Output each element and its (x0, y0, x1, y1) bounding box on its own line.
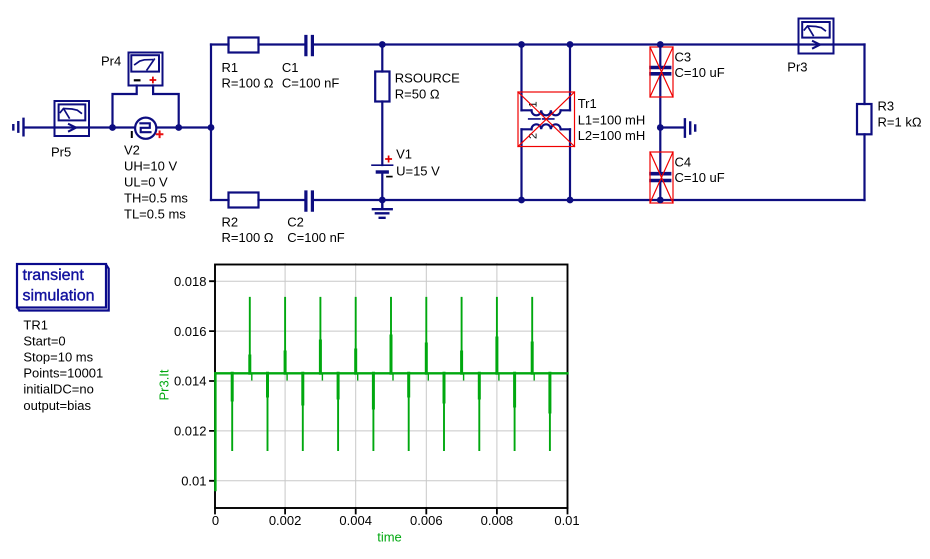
svg-text:0.018: 0.018 (174, 274, 207, 289)
svg-text:0.008: 0.008 (481, 513, 514, 528)
Tr1 core dashed line (529, 118, 554, 120)
node dot top Tr1 right (567, 41, 574, 48)
ground left (13, 119, 23, 136)
resistor R1 (229, 38, 259, 53)
svg-text:UL=0 V: UL=0 V (124, 175, 168, 190)
capacitor C1 (306, 37, 313, 55)
svg-text:0.016: 0.016 (174, 324, 207, 339)
svg-text:C3: C3 (675, 50, 692, 65)
wire input line (24, 126, 211, 128)
svg-text:Points=10001: Points=10001 (23, 366, 103, 381)
wire top rail (211, 43, 865, 45)
svg-text:0.014: 0.014 (174, 374, 207, 389)
svg-text:initialDC=no: initialDC=no (23, 382, 93, 397)
wire transformer left column (520, 45, 522, 201)
svg-text:0.002: 0.002 (269, 513, 302, 528)
curve start transient (214, 373, 216, 490)
node dot top C3 (657, 41, 664, 48)
svg-text:0.01: 0.01 (181, 474, 206, 489)
curve baseline (215, 372, 567, 374)
svg-text:C1: C1 (282, 60, 299, 75)
svg-text:0.006: 0.006 (410, 513, 443, 528)
wire transformer right column (569, 45, 571, 201)
node dot top Tr1 left (518, 41, 525, 48)
capacitor C2 (306, 192, 313, 210)
capacitor C4 (651, 174, 670, 181)
Pr4 minus mark (135, 79, 140, 81)
simulation box transient (17, 264, 109, 311)
Tr1 deactivation box (518, 92, 575, 147)
probe Pr3 (799, 19, 834, 54)
svg-text:U=15 V: U=15 V (396, 163, 440, 178)
node dot input split (208, 124, 215, 131)
curve up spikes (250, 298, 534, 380)
svg-text:R2: R2 (222, 215, 239, 230)
C3 deactivation box (650, 47, 673, 97)
svg-text:L1=100 mH: L1=100 mH (578, 112, 646, 127)
node dot bottom Tr1 right (567, 197, 574, 204)
V2 plus mark (157, 132, 163, 138)
svg-text:Pr3.It: Pr3.It (157, 369, 172, 400)
node dot V2 right (175, 124, 182, 131)
node dot bottom V1 (379, 197, 386, 204)
svg-text:Start=0: Start=0 (23, 333, 65, 348)
plot x ticks (215, 508, 568, 514)
wire RSOURCE/V1 branch (381, 45, 383, 201)
svg-text:R=50 Ω: R=50 Ω (395, 86, 440, 101)
wire left branch vertical (210, 45, 212, 201)
V1 plus mark (386, 156, 391, 161)
transformer Tr1 (522, 110, 571, 129)
wire Pr4 leads (113, 86, 179, 128)
svg-text:R3: R3 (878, 99, 895, 114)
svg-text:V2: V2 (124, 143, 140, 158)
C4 deactivation box (650, 152, 673, 203)
svg-text:TR1: TR1 (23, 317, 48, 332)
svg-text:0: 0 (212, 513, 219, 528)
capacitor C3 (651, 68, 670, 74)
svg-text:Tr1: Tr1 (578, 96, 597, 111)
wire bottom rail (211, 199, 865, 201)
V1 minus mark (387, 176, 392, 178)
resistor R3 (857, 104, 872, 134)
svg-text:R1: R1 (222, 60, 239, 75)
svg-text:C=10 uF: C=10 uF (675, 65, 725, 80)
svg-text:C4: C4 (675, 155, 692, 170)
svg-text:time: time (377, 530, 402, 545)
resistor RSOURCE (375, 72, 389, 102)
plot y ticks (210, 281, 215, 481)
svg-text:C=10 uF: C=10 uF (675, 170, 725, 185)
source V2 rectangle voltage (135, 118, 156, 139)
wire mid ground stem (660, 126, 683, 128)
ground under V1 (373, 200, 392, 218)
probe Pr4 voltmeter U1 (129, 53, 163, 86)
svg-text:transient: transient (23, 267, 85, 284)
svg-text:R=1 kΩ: R=1 kΩ (878, 115, 922, 130)
svg-text:0.012: 0.012 (174, 424, 207, 439)
svg-text:C2: C2 (287, 215, 304, 230)
svg-text:V1: V1 (396, 147, 412, 162)
svg-text:output=bias: output=bias (23, 398, 91, 413)
svg-text:L2=100 mH: L2=100 mH (578, 128, 646, 143)
source V1 battery (372, 164, 393, 166)
svg-text:Pr4: Pr4 (101, 54, 121, 69)
svg-text:TH=0.5 ms: TH=0.5 ms (124, 191, 188, 206)
node dot bottom C4 (657, 197, 664, 204)
svg-text:UH=10 V: UH=10 V (124, 159, 177, 174)
ground right mid (685, 119, 695, 136)
probe Pr5 (55, 101, 90, 136)
Pr4 plus mark (150, 78, 155, 83)
resistor R2 (229, 193, 259, 208)
svg-text:Pr5: Pr5 (51, 145, 71, 160)
node dot top RSOURCE (379, 41, 386, 48)
svg-text:TL=0.5 ms: TL=0.5 ms (124, 207, 186, 222)
svg-text:C=100 nF: C=100 nF (282, 76, 340, 91)
svg-text:R=100 Ω: R=100 Ω (222, 230, 274, 245)
svg-text:C=100 nF: C=100 nF (287, 230, 345, 245)
plot gridlines (215, 264, 568, 509)
node dot bottom Tr1 left (518, 197, 525, 204)
wire C3 C4 column (659, 45, 661, 201)
svg-text:R=100 Ω: R=100 Ω (222, 76, 274, 91)
svg-text:0.01: 0.01 (554, 513, 579, 528)
node dot V2 left (109, 124, 116, 131)
wire right vertical (863, 45, 865, 201)
svg-text:RSOURCE: RSOURCE (395, 71, 460, 86)
svg-text:Pr3: Pr3 (787, 60, 807, 75)
svg-text:Stop=10 ms: Stop=10 ms (23, 350, 93, 365)
plot frame (215, 265, 568, 509)
svg-text:0.004: 0.004 (339, 513, 372, 528)
V2 minus mark (131, 132, 133, 137)
svg-text:simulation: simulation (23, 287, 95, 304)
curve down spikes (232, 373, 550, 450)
node dot mid ground (657, 124, 664, 131)
